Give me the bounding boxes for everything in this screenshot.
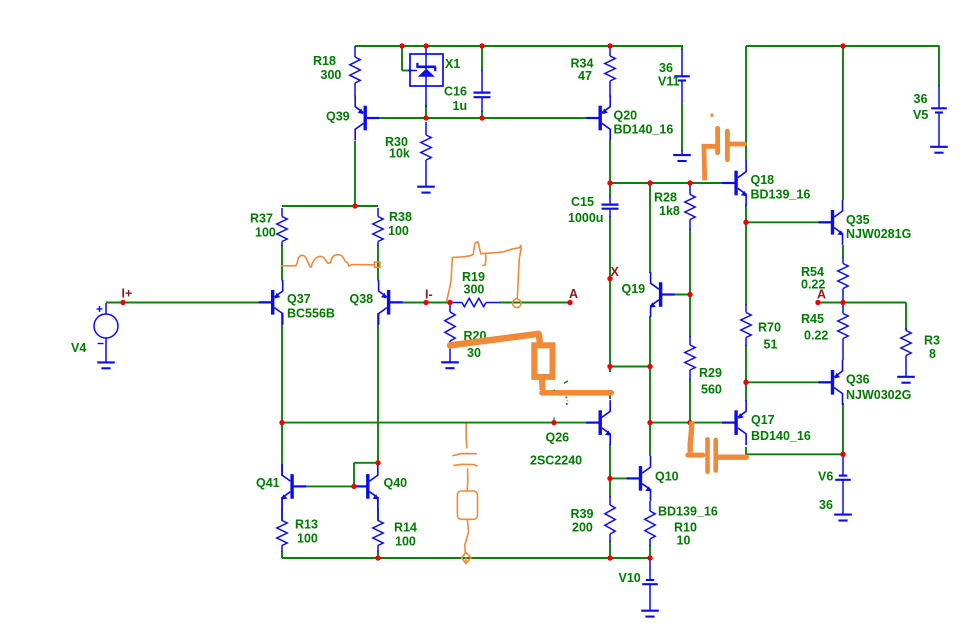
transistor Q40: [366, 474, 369, 499]
junction: [687, 292, 692, 297]
resistor R18: [354, 46, 356, 57]
svg-text:1u: 1u: [453, 99, 468, 113]
junction: [551, 420, 556, 425]
junction: [479, 43, 484, 48]
zener regulator X1: [410, 54, 443, 86]
svg-text:100: 100: [395, 535, 416, 549]
svg-text:2SC2240: 2SC2240: [530, 454, 582, 468]
svg-text:R29: R29: [699, 366, 722, 380]
wire Q40 base tie drop: [353, 463, 355, 487]
svg-text:Q10: Q10: [655, 470, 679, 484]
wire Q35 collector column: [842, 46, 844, 200]
wire Q37-Q41 collector column: [281, 313, 283, 476]
wire Q18 collector column: [745, 46, 747, 161]
annotation orange speck: [710, 114, 713, 117]
svg-text:BD139_16: BD139_16: [751, 188, 811, 202]
resistor R28: [689, 184, 691, 195]
wire V11 column: [681, 46, 683, 50]
svg-text:Q17: Q17: [751, 413, 775, 427]
junction: [120, 300, 125, 305]
wire R37 R38 rail: [282, 205, 378, 207]
transistor Q17: [734, 410, 737, 435]
svg-text:560: 560: [701, 383, 722, 397]
transistor Q35: [831, 210, 834, 235]
annotation small specks: [564, 381, 568, 383]
wire Q41-Q40 base: [294, 485, 367, 487]
wire node X column: [609, 183, 611, 197]
resistor R45: [842, 303, 844, 314]
svg-text:I-: I-: [425, 288, 433, 302]
wire R39 column: [609, 444, 611, 497]
wire X1 ref drop: [401, 45, 403, 71]
wire node A output: [818, 302, 906, 304]
svg-text:V11: V11: [658, 75, 680, 89]
junction: [607, 276, 612, 281]
junction: [647, 180, 652, 185]
capacitor C16: [481, 70, 483, 92]
wire Q19 base: [662, 294, 690, 296]
wire R70 column: [745, 222, 747, 305]
wire Q35 emitter to R54: [842, 245, 844, 258]
svg-text:C15: C15: [571, 195, 594, 209]
resistor R10: [649, 501, 651, 511]
resistor R39: [609, 496, 611, 505]
svg-text:R70: R70: [758, 321, 781, 335]
capacitor C15: [609, 196, 611, 204]
annotation thick box lead down: [539, 378, 546, 390]
annotation thick line into gap: [542, 390, 611, 396]
junction: [743, 380, 748, 385]
svg-text:300: 300: [464, 283, 485, 297]
wire Q40 emitter column: [377, 508, 379, 521]
battery V10: [649, 559, 651, 580]
junction: [647, 420, 652, 425]
wire Q38-Q40 collector column: [377, 313, 379, 463]
junction: [423, 115, 428, 120]
svg-text:R39: R39: [571, 507, 594, 521]
wire Q18 emitter to Q35 base: [745, 204, 747, 222]
junction: [399, 43, 404, 48]
wire Q10 column: [649, 367, 651, 457]
wire stub above Q26: [609, 395, 611, 400]
annotation thick resistor box: [534, 345, 552, 377]
svg-text:R3: R3: [924, 334, 940, 348]
wire emitter column Q38: [377, 245, 379, 281]
wire Q10 base: [610, 477, 640, 479]
svg-text:47: 47: [578, 69, 592, 83]
svg-text:R45: R45: [801, 312, 824, 326]
svg-text:V10: V10: [619, 571, 641, 585]
svg-text:Q41: Q41: [256, 476, 280, 490]
resistor R30: [425, 122, 427, 135]
wire C16 column: [481, 46, 483, 71]
wire Q20 collector rail: [610, 182, 737, 184]
svg-text:BD139_16: BD139_16: [658, 505, 718, 519]
svg-text:NJW0302G: NJW0302G: [846, 388, 911, 402]
battery V5: [938, 85, 940, 108]
wire Q39 collector column: [354, 141, 356, 206]
resistor R3: [905, 328, 907, 331]
wire bottom rail: [282, 557, 650, 559]
annotation thick capacitor near Q17: [690, 421, 692, 453]
svg-text:R13: R13: [295, 518, 318, 532]
svg-text:R28: R28: [654, 191, 677, 205]
annotation thick capacitor near Q18: [715, 128, 720, 153]
svg-text:Q40: Q40: [384, 476, 408, 490]
annotation loop around R19: [447, 242, 522, 308]
svg-text:I+: I+: [122, 287, 133, 301]
wire Q36 collector drop: [842, 403, 844, 454]
wire emitter column Q37: [281, 245, 283, 281]
svg-text:R37: R37: [250, 212, 273, 226]
svg-text:1000u: 1000u: [568, 211, 603, 225]
svg-text:8: 8: [929, 347, 936, 361]
junction: [567, 300, 572, 305]
svg-text:V4: V4: [71, 341, 86, 355]
svg-text:BD140_16: BD140_16: [614, 123, 674, 137]
wire Q41 emitter column: [281, 508, 283, 521]
resistor R20: [449, 303, 451, 313]
junction: [607, 180, 612, 185]
svg-text:BC556B: BC556B: [287, 307, 335, 321]
resistor R29: [689, 336, 691, 345]
svg-text:X1: X1: [445, 57, 460, 71]
transistor Q18: [734, 171, 737, 196]
resistor R37: [281, 208, 283, 217]
resistor R34: [609, 46, 611, 56]
junction: [815, 300, 820, 305]
battery V6: [842, 456, 844, 476]
transistor Q36: [831, 370, 834, 395]
svg-text:C16: C16: [444, 85, 467, 99]
junction: [447, 300, 452, 305]
svg-text:51: 51: [764, 338, 778, 352]
junction: [840, 452, 845, 457]
svg-text:BD140_16: BD140_16: [751, 429, 811, 443]
wire Q17 collector foot: [745, 447, 747, 455]
svg-text:Q38: Q38: [350, 292, 374, 306]
battery V11: [681, 49, 683, 76]
source V4: [94, 314, 118, 338]
wire Q36 base: [746, 381, 832, 383]
svg-text:36: 36: [914, 92, 928, 106]
svg-text:Q37: Q37: [287, 292, 311, 306]
transistor Q38: [387, 290, 390, 315]
transistor Q10: [639, 466, 642, 491]
junction: [375, 555, 380, 560]
wire mid link: [610, 366, 650, 368]
resistor R19: [450, 302, 462, 304]
svg-text:Q19: Q19: [622, 282, 646, 296]
transistor Q20: [599, 106, 602, 131]
junction: [479, 115, 484, 120]
wire bias rail right: [650, 422, 736, 424]
svg-text:R38: R38: [389, 210, 412, 224]
wire top rail right: [746, 45, 940, 47]
annotation thick line over R20: [450, 334, 539, 346]
wire base rail Q39-Q20: [366, 117, 600, 119]
junction: [279, 420, 284, 425]
wire R19 to node A: [499, 302, 570, 304]
junction: [687, 180, 692, 185]
svg-text:1k8: 1k8: [659, 204, 680, 218]
svg-text:Q36: Q36: [846, 373, 870, 387]
wire R3 drop: [905, 303, 907, 331]
junction: [607, 476, 612, 481]
wire R28 R29 column: [689, 229, 691, 337]
wire Q19 column upper: [649, 183, 651, 273]
junction: [647, 555, 652, 560]
wire X1 ref stub: [402, 70, 411, 72]
svg-text:R10: R10: [674, 521, 697, 535]
resistor R70: [745, 304, 747, 313]
resistor R38: [377, 208, 379, 217]
junction: [840, 300, 845, 305]
wire Q19 column lower: [649, 316, 651, 367]
wire Q38 base to R19: [390, 302, 450, 304]
svg-text:10k: 10k: [389, 147, 410, 161]
transistor Q37: [271, 290, 274, 315]
svg-text:30: 30: [467, 346, 481, 360]
svg-text:V6: V6: [818, 470, 833, 484]
transistor Q41: [290, 474, 293, 499]
resistor R13: [281, 497, 283, 521]
junction: [647, 364, 652, 369]
svg-text:Q18: Q18: [751, 173, 775, 187]
junction: [351, 484, 356, 489]
svg-text:V5: V5: [913, 108, 928, 122]
transistor Q19: [659, 282, 662, 307]
svg-text:Q35: Q35: [846, 213, 870, 227]
junction: [352, 203, 357, 208]
svg-text:100: 100: [388, 224, 409, 238]
annotation squiggle over R37-R38: [281, 255, 374, 267]
svg-text:36: 36: [659, 61, 673, 75]
transistor Q26: [599, 410, 602, 435]
svg-text:R18: R18: [313, 54, 336, 68]
svg-text:0.22: 0.22: [804, 329, 828, 343]
wire bias rail mid: [282, 422, 600, 424]
wire top rail left: [355, 45, 683, 47]
wire X1 column: [425, 105, 427, 119]
svg-text:100: 100: [255, 226, 276, 240]
resistor R14: [377, 497, 379, 521]
wire V5 column: [938, 46, 940, 86]
junction: [423, 43, 428, 48]
wire input: [106, 302, 272, 304]
junction: [607, 43, 612, 48]
wire Q35 base: [746, 221, 832, 223]
svg-text:36: 36: [819, 498, 833, 512]
svg-text:300: 300: [321, 68, 342, 82]
resistor R54: [842, 257, 844, 264]
junction: [607, 364, 612, 369]
svg-text:100: 100: [297, 532, 318, 546]
svg-text:A: A: [569, 287, 578, 301]
svg-text:Q39: Q39: [326, 110, 350, 124]
junction: [743, 220, 748, 225]
svg-text:200: 200: [572, 521, 593, 535]
wire Q40 base tie top: [354, 462, 378, 464]
svg-text:NJW0281G: NJW0281G: [846, 227, 911, 241]
wire output rail bottom: [746, 453, 843, 455]
annotation thin capacitor sketch: [465, 424, 468, 449]
svg-text:Q20: Q20: [614, 109, 638, 123]
junction: [607, 555, 612, 560]
wire Q20 collector drop: [609, 140, 611, 184]
junction: [687, 420, 692, 425]
svg-text:R14: R14: [394, 521, 417, 535]
svg-text:A: A: [817, 288, 826, 302]
junction: [423, 300, 428, 305]
transistor Q39: [364, 106, 367, 131]
junction: [375, 460, 380, 465]
junction: [840, 43, 845, 48]
svg-text:Q26: Q26: [546, 431, 570, 445]
svg-text:10: 10: [677, 534, 691, 548]
